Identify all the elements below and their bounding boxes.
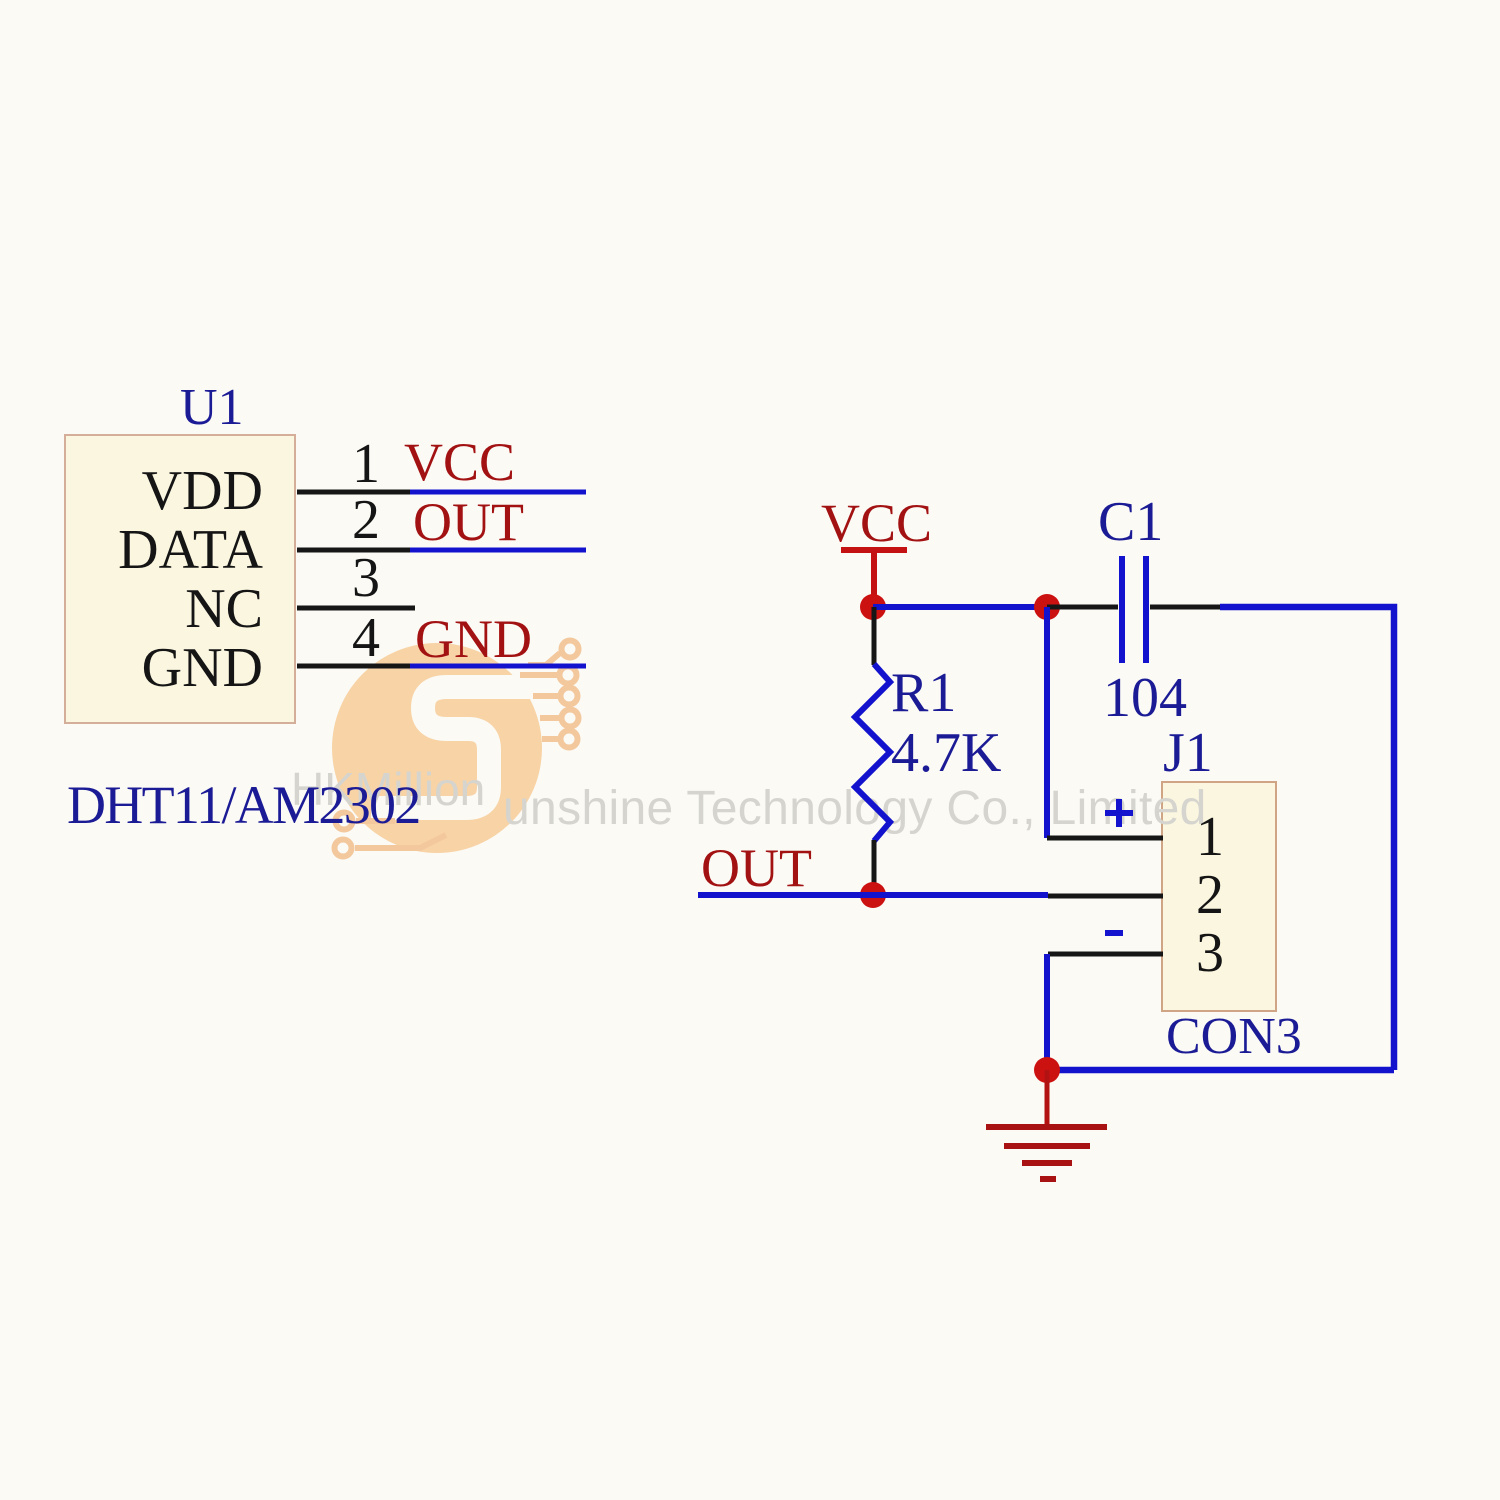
wire GND net stub [410, 664, 586, 669]
junction node VCC-R1 [860, 594, 886, 620]
junction node C1 branch [1034, 594, 1060, 620]
svg-text:OUT: OUT [413, 492, 524, 552]
resistor R1 top lead [872, 607, 877, 665]
wire C1 left lead [1047, 605, 1118, 610]
svg-text:1: 1 [1196, 806, 1224, 868]
plus polarity mark [1105, 799, 1133, 827]
svg-text:R1: R1 [891, 662, 956, 724]
svg-text:GND: GND [415, 609, 532, 669]
wire minus branch vertical [1044, 954, 1050, 1070]
ground stem [1045, 1070, 1050, 1127]
svg-text:OUT: OUT [701, 838, 812, 898]
ground bar 2 [1004, 1143, 1090, 1149]
wire VCC to C1 junction [873, 604, 1047, 610]
svg-text:3: 3 [1196, 922, 1224, 984]
watermark logo circle [332, 641, 579, 857]
minus polarity mark [1105, 930, 1123, 936]
svg-text:VDD: VDD [142, 460, 263, 522]
connector J1 body [1162, 782, 1276, 1011]
wire J1 pin2 lead [1048, 894, 1163, 899]
svg-text:NC: NC [185, 578, 263, 640]
svg-text:1: 1 [352, 433, 380, 495]
svg-text:C1: C1 [1098, 491, 1163, 553]
wire C1 right lead [1150, 605, 1220, 610]
wire top right loop [1220, 607, 1394, 1070]
U1 pin 2 lead [297, 548, 410, 553]
resistor R1 zigzag [855, 664, 890, 841]
svg-text:3: 3 [352, 547, 380, 609]
svg-text:VCC: VCC [821, 493, 932, 553]
component U1 body [65, 435, 295, 723]
junction node ground [1034, 1057, 1060, 1083]
svg-text:104: 104 [1103, 667, 1187, 729]
wire J1 pin1 lead [1047, 836, 1163, 841]
wire plus branch vertical [1044, 607, 1050, 838]
power symbol VCC bar [841, 547, 907, 553]
wire OUT net [698, 892, 1048, 898]
svg-text:VCC: VCC [404, 432, 515, 492]
capacitor C1 left plate [1119, 556, 1125, 663]
ground bar 3 [1022, 1160, 1072, 1166]
svg-text:DHT11/AM2302: DHT11/AM2302 [67, 775, 420, 835]
ground bar 4 [1040, 1176, 1056, 1182]
wire bottom ground run [1047, 1067, 1394, 1074]
junction node OUT-R1 [860, 882, 886, 908]
power symbol VCC stem [871, 550, 877, 607]
svg-text:J1: J1 [1163, 722, 1213, 784]
svg-text:GND: GND [142, 637, 263, 699]
svg-text:2: 2 [1196, 864, 1224, 926]
svg-text:DATA: DATA [118, 519, 263, 581]
svg-text:CON3: CON3 [1166, 1008, 1302, 1065]
resistor R1 bottom lead [872, 840, 877, 894]
U1 pin 3 lead [297, 606, 415, 611]
capacitor C1 right plate [1143, 556, 1149, 663]
wire VCC net stub [410, 490, 586, 495]
svg-text:U1: U1 [180, 379, 244, 436]
svg-text:4: 4 [352, 607, 380, 669]
wire OUT net stub [410, 548, 586, 553]
wire J1 pin3 lead [1048, 952, 1163, 957]
svg-text:2: 2 [352, 489, 380, 551]
U1 pin 1 lead [297, 490, 410, 495]
svg-text:4.7K: 4.7K [891, 722, 1001, 784]
U1 pin 4 lead [297, 664, 410, 669]
ground bar 1 [986, 1124, 1107, 1130]
